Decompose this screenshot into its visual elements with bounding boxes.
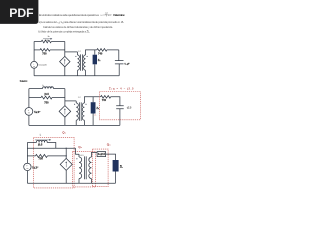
svg-text:İ₁: İ₁ xyxy=(43,84,45,87)
wire: c3 primary bottom stub xyxy=(78,179,80,184)
transformer T1 secondary coil xyxy=(84,55,86,70)
transformer T3 primary coil xyxy=(79,157,82,179)
svg-text:s: s xyxy=(106,16,107,18)
junction dot c3 resistor branch xyxy=(66,155,67,156)
wire: c1 left vertical bottom xyxy=(33,68,35,76)
current arrow I1 c3 xyxy=(35,139,50,141)
wire: c3 coil branch right lead and drop xyxy=(47,143,56,149)
svg-text:j0.5: j0.5 xyxy=(44,40,48,42)
voltage source V2 circle xyxy=(25,108,33,116)
dependent source D3 diamond xyxy=(60,158,72,170)
transformer T2 secondary coil xyxy=(82,103,84,120)
wire: c1 top branch left lead xyxy=(34,41,41,43)
wire: c3 link to transformer primary xyxy=(76,148,80,154)
wire: c1 primary top stub xyxy=(77,52,79,55)
wire: c3 middle rail xyxy=(27,147,75,149)
wire: c3 left vertical bottom xyxy=(26,171,28,184)
svg-text:750: 750 xyxy=(39,156,44,160)
wire: c1 secondary top to node xyxy=(86,50,97,55)
polarity dot secondary c3 xyxy=(89,158,90,159)
svg-text:a) Los valores de L₁ y L₂ par: a) Los valores de L₁ y L₂ para obtener u… xyxy=(39,20,125,24)
wire: c2 left vertical top xyxy=(28,89,30,108)
capacitor C1 plates xyxy=(115,61,124,64)
wire: c1 left vertical top xyxy=(33,42,35,62)
polarity dot secondary c2 xyxy=(85,104,86,105)
wire: c3 bottom rail xyxy=(27,182,115,184)
wire: c2 primary bottom stub xyxy=(75,120,77,125)
svg-text:750: 750 xyxy=(42,52,47,56)
wire: c2 capacitor bottom xyxy=(119,109,121,126)
wire: c1 secondary bottom stub xyxy=(85,70,87,76)
wire: c1 second branch left lead xyxy=(34,49,40,51)
capacitor C2 plates xyxy=(116,106,124,109)
red dashed box A xyxy=(33,137,74,188)
transformer T3 core bars xyxy=(84,156,86,179)
wire: c3 impedance to load xyxy=(106,154,116,160)
svg-text:50cos(ωt)V: 50cos(ωt)V xyxy=(38,63,47,66)
svg-text:740: 740 xyxy=(102,98,107,102)
wire: c1 diamond bottom to bottom rail xyxy=(64,67,66,76)
red dashed box B (transformer) xyxy=(73,151,96,187)
voltage source V1 circle xyxy=(31,61,38,68)
wire: c3 resistor branch left lead xyxy=(27,155,35,157)
svg-text:⅛ µF: ⅛ µF xyxy=(124,64,130,66)
svg-text:En el circuito mostrado se sab: En el circuito mostrado se sabe que la f… xyxy=(39,13,100,17)
wire: c2 second branch left lead xyxy=(29,97,41,99)
wire: c2 left vertical bottom xyxy=(28,115,30,125)
wire: c2 second branch right lead xyxy=(52,97,65,99)
svg-text:j0.5: j0.5 xyxy=(37,143,43,147)
red dashed box c2 xyxy=(99,92,140,120)
svg-text:Z̄ₑq = 4 − j2.5: Z̄ₑq = 4 − j2.5 xyxy=(109,86,134,90)
wire: c2 stub to Z1 top xyxy=(92,97,94,102)
transformer T2 core bars xyxy=(79,102,81,121)
wire: c2 top branch right lead xyxy=(54,88,65,90)
wire: c3 load bottom stub xyxy=(115,172,117,184)
wire: c2 link to transformer primary xyxy=(65,100,76,102)
wire: c2 diamond bottom to bottom rail xyxy=(64,117,66,125)
wire: c3 diamond bottom to bottom rail xyxy=(65,170,67,183)
svg-text:750: 750 xyxy=(44,101,49,105)
svg-text:Z̄₁: Z̄₁ xyxy=(98,58,101,62)
polarity dot secondary c1 xyxy=(87,56,88,57)
svg-text:Calcule los valores de dichas: Calcule los valores de dichas inductanci… xyxy=(43,25,113,29)
polarity dot primary c1 xyxy=(75,56,76,57)
current arrow I1 c2 xyxy=(43,86,52,88)
wire: c1 stub to Z1 top xyxy=(94,50,96,55)
transformer T3 secondary coil xyxy=(89,157,92,179)
voltage source V3 circle xyxy=(24,163,31,170)
svg-text:Q̇₃: Q̇₃ xyxy=(107,142,111,146)
svg-text:Determine:: Determine: xyxy=(113,13,125,17)
svg-text:5∠0°: 5∠0° xyxy=(34,110,40,114)
wire: c3 primary top stub xyxy=(78,154,80,157)
inductor j0.5 c3 (coil humps) xyxy=(36,140,47,142)
resistor 740 c2 (zigzag) xyxy=(101,96,111,99)
svg-text:Z̄₁: Z̄₁ xyxy=(96,106,99,110)
wire: c1 Z1 bottom stub xyxy=(94,64,96,76)
impedance Z1 (navy block) xyxy=(93,55,97,65)
series impedance box 3+j2.5 xyxy=(97,152,106,157)
resistor 750 (zigzag) second branch xyxy=(40,49,50,52)
wire: c2 secondary bottom stub xyxy=(83,120,85,125)
svg-text:3+j2.5: 3+j2.5 xyxy=(98,153,106,156)
wire: c1 vertical to dependent source xyxy=(64,42,66,57)
svg-text:İ₁: İ₁ xyxy=(40,133,42,136)
wire: c3 coil branch left lead xyxy=(27,142,36,144)
svg-text:Z̄L: Z̄L xyxy=(120,165,124,168)
wire: c3 secondary top to series impedance xyxy=(92,152,98,157)
wire: c1 to capacitor xyxy=(107,50,119,61)
svg-text:j0.5: j0.5 xyxy=(44,92,50,96)
wire: c3 resistor branch right lead xyxy=(47,155,66,157)
dependent source D2 diamond xyxy=(59,106,71,118)
wire: c2 primary top stub xyxy=(75,101,77,103)
arrow inside diamond c1 xyxy=(64,60,66,65)
svg-text:Q̇₂: Q̇₂ xyxy=(78,145,82,149)
svg-text:Solución:: Solución: xyxy=(20,80,28,83)
polarity dot primary c3 xyxy=(76,158,77,159)
wire: c3 left vertical top xyxy=(26,143,28,164)
wire: c1 link to transformer primary xyxy=(65,51,78,53)
wire: c3 vertical to diamond xyxy=(65,148,67,158)
svg-text:b) Valor de la potencia compl: b) Valor de la potencia compleja entrega… xyxy=(38,29,90,33)
impedance Z1 c2 (navy block) xyxy=(91,102,96,113)
transformer T2 primary coil xyxy=(76,103,78,120)
wire: c1 second branch right lead xyxy=(50,49,65,51)
svg-text:-j2.5: -j2.5 xyxy=(126,106,132,109)
wire: c2 bottom rail xyxy=(29,124,120,126)
wire: c1 primary bottom stub xyxy=(77,70,79,76)
current arrow I1 c1 xyxy=(43,38,51,40)
wire: c1 bottom rail xyxy=(34,75,119,77)
svg-text:L₁: L₁ xyxy=(48,36,50,38)
wire: c2 secondary top to node xyxy=(84,97,100,103)
transformer T1 primary coil xyxy=(78,55,80,70)
wire: c2 Z1 bottom stub xyxy=(92,114,94,126)
resistor 750 (zigzag) c2 second branch xyxy=(41,96,52,99)
inductor j0.5 (coil) c2 top branch xyxy=(43,87,54,89)
svg-text:1:0.5: 1:0.5 xyxy=(80,155,84,157)
svg-text:5∠0°: 5∠0° xyxy=(32,166,38,170)
wire: c2 vertical to dependent source xyxy=(64,89,66,106)
wire: c1 capacitor bottom xyxy=(118,64,120,76)
wire: c3 secondary bottom stub xyxy=(91,179,93,184)
polarity dot primary c2 xyxy=(74,104,75,105)
wire: c2 to capacitor xyxy=(111,97,120,106)
arrow inside diamond c2 xyxy=(64,109,66,114)
arrow inside diamond c3 xyxy=(65,162,67,167)
dependent source D1 diamond xyxy=(60,56,70,66)
inductor L1 (zigzag) top branch xyxy=(41,40,51,43)
impedance ZL c3 (navy block) xyxy=(113,160,119,172)
resistor 750 c3 (zigzag) xyxy=(35,154,47,157)
svg-text:740: 740 xyxy=(98,51,103,55)
svg-text:Z̄₁: Z̄₁ xyxy=(94,113,96,116)
svg-text:PDF: PDF xyxy=(9,6,33,20)
PDF badge xyxy=(0,0,38,24)
junction dot c3 middle rail xyxy=(66,148,67,149)
wire: c2 top branch left lead xyxy=(29,88,43,90)
resistor 740 (zigzag) top right xyxy=(97,49,107,52)
transformer T1 core bars xyxy=(81,54,83,70)
red dashed box C (load branch) xyxy=(93,149,109,187)
wire: c1 top branch right lead xyxy=(51,41,65,43)
